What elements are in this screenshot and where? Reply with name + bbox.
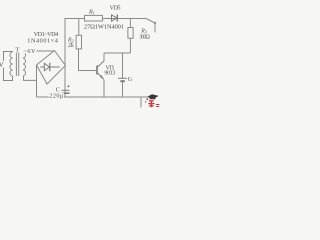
wire secondary bottom lead to bridge bottom vertex: [24, 76, 37, 80]
wire primary top lead: [12, 51, 14, 54]
wire mains left loop: [4, 52, 13, 81]
transformer T primary winding: [10, 52, 13, 76]
transistor VT1: [97, 61, 104, 80]
wire collector vertical: [103, 53, 105, 61]
svg-text:300Ω: 300Ω: [139, 34, 150, 40]
svg-text:V: V: [0, 61, 4, 69]
label V (cut mains voltage): [0, 61, 6, 68]
wire secondary top lead to bridge top vertex: [24, 51, 55, 52]
terminal dot: [154, 22, 156, 24]
svg-text:R1: R1: [88, 10, 95, 16]
wire cap to bottom rail: [64, 66, 66, 98]
watermark graduation cap: [146, 94, 158, 100]
capacitor plus sign: [67, 85, 69, 87]
wire plus vertical: rail to bridge right vertex to cap: [64, 19, 66, 66]
wire R3 to collector node: [129, 38, 131, 53]
wire battery to bottom rail: [122, 82, 124, 98]
resistor R3 box: [128, 28, 133, 39]
wire bottom rail: [37, 96, 153, 98]
svg-text:VD5: VD5: [110, 5, 121, 12]
diode VD5: [112, 14, 118, 21]
capacitor C plates: [62, 90, 70, 93]
label 220u: [49, 92, 64, 99]
bridge internal diode: [40, 63, 60, 72]
wire top rail: [65, 18, 147, 20]
wire R2 to base: [79, 49, 97, 71]
wire terminal stub: [154, 23, 156, 33]
background: [0, 0, 160, 110]
label ~6V: [23, 47, 37, 56]
svg-text:9013: 9013: [104, 71, 115, 77]
resistor R1 box: [85, 15, 103, 21]
transistor emitter arrow: [100, 75, 104, 79]
svg-text:2k: 2k: [68, 43, 74, 49]
wire collector node horizontal: [104, 52, 130, 54]
wire switch diagonal to terminal: [146, 19, 155, 24]
wire battery drop: [122, 53, 124, 78]
svg-text:G: G: [128, 76, 133, 83]
transformer T secondary winding: [23, 52, 26, 76]
wire bridge minus to bottom rail: [36, 65, 38, 97]
watermark red glyph: [145, 100, 159, 107]
battery G plates: [118, 78, 127, 81]
svg-text:27Ω1W1N4001: 27Ω1W1N4001: [84, 24, 124, 31]
svg-text:T: T: [15, 46, 19, 53]
resistor R2 box: [76, 35, 81, 49]
wire bottom-right drop: [140, 97, 142, 108]
svg-text:220μ: 220μ: [49, 92, 64, 99]
wire R3 drop from rail: [129, 19, 131, 28]
transformer T core: [16, 53, 18, 77]
wire emitter to bottom rail: [103, 80, 105, 97]
wire R2 drop from rail: [78, 19, 80, 36]
bridge rectifier VD1-VD4 diamond: [37, 51, 66, 85]
svg-text:~6V: ~6V: [24, 48, 37, 55]
svg-text:1N4001×4: 1N4001×4: [27, 38, 58, 45]
